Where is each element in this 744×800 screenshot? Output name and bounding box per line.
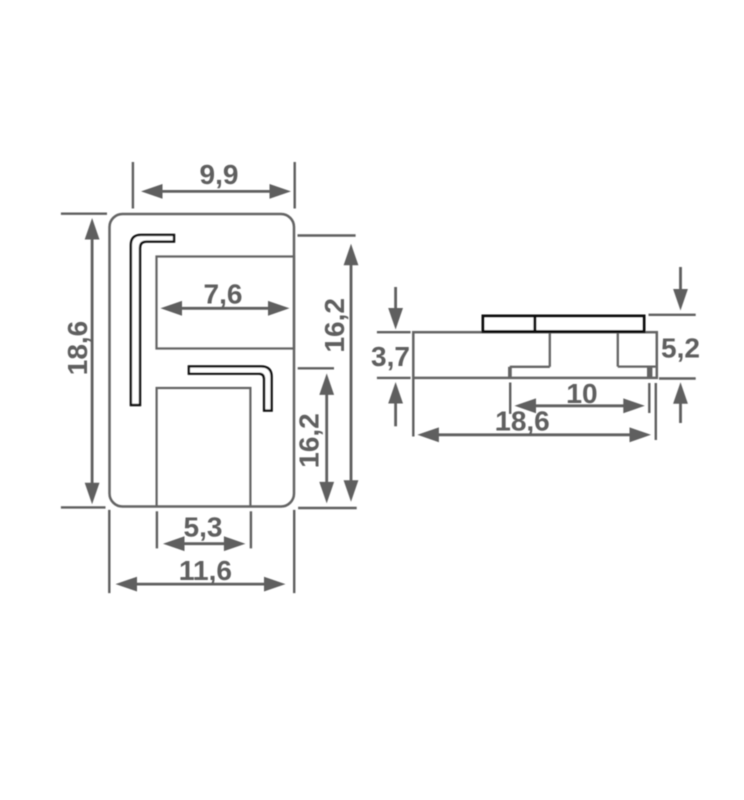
dim 3,7 down arrow xyxy=(394,287,397,309)
dim 10 extension line left xyxy=(509,383,511,414)
dim 7,6 arrow line xyxy=(180,307,269,310)
svg-text:10: 10 xyxy=(566,378,597,409)
dim 3,7 up arrow xyxy=(388,382,403,404)
dim 18,6 right-fig extension line left xyxy=(412,379,414,437)
svg-text:16,2: 16,2 xyxy=(319,298,350,353)
black gasket profile upper-left (L-shape) xyxy=(131,235,174,405)
dim 5,2 extension line top xyxy=(649,314,696,316)
inner bottom channel rectangle xyxy=(157,388,251,506)
dim 5,3 arrow line xyxy=(182,542,226,545)
dim 18,6 extension line bottom xyxy=(61,506,106,508)
outer rounded body outline xyxy=(110,214,295,507)
dim 11,6 extension line right xyxy=(293,510,295,593)
inner cavity rectangle (7,6 box) xyxy=(157,257,295,349)
svg-text:5,2: 5,2 xyxy=(661,333,700,364)
right foot block xyxy=(647,367,652,378)
dim 9,9 extension line right xyxy=(294,162,296,209)
dim 11,6 extension line left xyxy=(108,510,110,593)
dim 5,2 up arrow xyxy=(673,382,688,404)
inner step horizontal line xyxy=(510,366,550,368)
dim 5,2 extension line bottom xyxy=(659,377,696,379)
svg-text:9,9: 9,9 xyxy=(200,159,239,190)
svg-text:7,6: 7,6 xyxy=(204,279,243,310)
dim 16,2 inner extension line mid xyxy=(298,367,334,369)
inner step vertical line xyxy=(549,333,551,367)
dim 10 arrow line xyxy=(534,404,625,407)
svg-text:18,6: 18,6 xyxy=(62,321,93,376)
dim 5,3 extension line right xyxy=(250,511,252,548)
black top plate xyxy=(483,316,644,332)
dim 11,6 arrow line xyxy=(135,583,265,586)
dim 3,7 extension line bottom xyxy=(377,377,411,379)
dim 10 extension line right xyxy=(648,383,650,413)
black gasket profile middle (hook shape) xyxy=(189,366,272,410)
svg-text:5,3: 5,3 xyxy=(184,512,223,543)
dim 9,9 extension line left xyxy=(132,162,134,209)
dim 5,2 down arrow xyxy=(679,267,682,290)
serif feet for digit 1 glyphs xyxy=(84,338,581,580)
dim 3,7 extension line top xyxy=(377,331,411,333)
dim 18,6 right-fig arrow line xyxy=(438,433,630,436)
dim 16,2 outer extension line top xyxy=(298,234,356,236)
side-view body bar xyxy=(413,332,657,378)
svg-text:16,2: 16,2 xyxy=(294,413,325,468)
dim 16,2 inner arrow line xyxy=(325,393,328,483)
dim 9,9 arrow line xyxy=(161,190,271,193)
dim 16,2 outer arrow line xyxy=(350,263,353,482)
left foot block xyxy=(508,367,512,378)
top plate divider xyxy=(533,316,536,332)
right block bottom line xyxy=(618,365,656,367)
svg-text:18,6: 18,6 xyxy=(495,406,550,437)
svg-text:3,7: 3,7 xyxy=(371,341,410,372)
dim 18,6 arrow line xyxy=(91,237,94,485)
dim 18,6 right-fig extension line right xyxy=(655,383,657,440)
right block vertical line xyxy=(617,333,619,367)
dim 5,3 extension line left xyxy=(156,511,158,548)
svg-text:11,6: 11,6 xyxy=(179,555,232,586)
dim 18,6 extension line top xyxy=(61,212,107,214)
shared bottom extension line right xyxy=(298,507,357,509)
